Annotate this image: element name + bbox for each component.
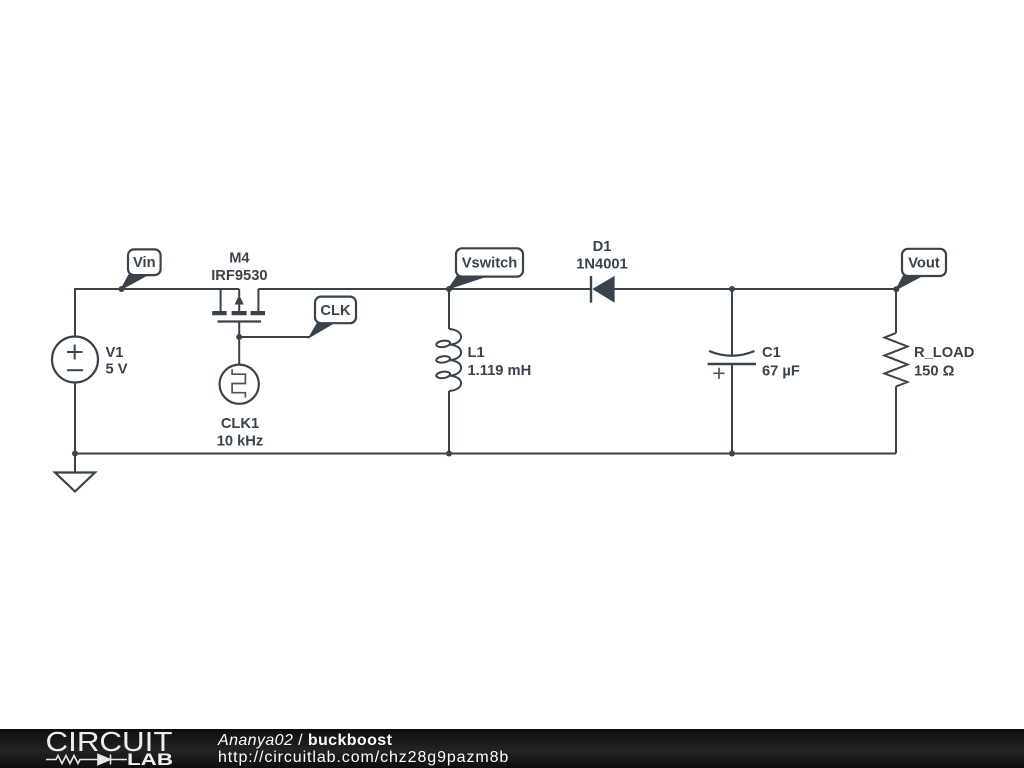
- svg-text:Vswitch: Vswitch: [462, 256, 518, 272]
- svg-text:1N4001: 1N4001: [576, 257, 627, 273]
- value label R_LOAD / 150 Ω: [914, 345, 974, 380]
- node L1 bottom (junction dot): [446, 451, 452, 457]
- diode D1: [591, 276, 614, 303]
- wire: Vout node down to R_LOAD: [895, 289, 897, 333]
- wire: Vin net (V1 top to MOSFET source): [75, 289, 239, 337]
- value label M4 / IRF9530: [211, 251, 267, 285]
- wire: diode anode to Vout corner: [614, 288, 896, 290]
- value label L1 / 1.119 mH: [468, 345, 532, 379]
- svg-text:67 µF: 67 µF: [762, 364, 800, 380]
- node ground junction (junction dot): [72, 451, 78, 457]
- wire: drain net to diode cathode: [258, 288, 591, 290]
- wire: L1 bottom to ground rail: [448, 391, 450, 454]
- wire: Vswitch node down to L1: [448, 289, 450, 329]
- svg-text:M4: M4: [229, 251, 250, 267]
- value label D1 / 1N4001: [576, 239, 627, 273]
- svg-text:1.119 mH: 1.119 mH: [468, 363, 532, 379]
- value label C1 / 67 µF: [762, 345, 800, 380]
- wire: C1 top stub: [731, 289, 733, 355]
- resistor R_LOAD: [885, 333, 908, 387]
- CircuitLab logo: [0, 729, 200, 768]
- svg-text:150 Ω: 150 Ω: [914, 364, 955, 380]
- node Vswitch (junction dot): [446, 286, 452, 292]
- node Vout (junction dot): [893, 286, 899, 292]
- svg-text:10 kHz: 10 kHz: [217, 434, 264, 450]
- clock source CLK1: [220, 365, 259, 404]
- svg-text:CLK1: CLK1: [221, 416, 259, 432]
- flag Vout: [896, 249, 946, 289]
- svg-text:C1: C1: [762, 345, 781, 361]
- transistor M4 (PMOS): [212, 289, 265, 322]
- svg-text:LAB: LAB: [127, 751, 173, 768]
- node C1 top (junction dot): [729, 286, 735, 292]
- voltage source V1: [52, 337, 98, 383]
- svg-text:IRF9530: IRF9530: [211, 268, 267, 284]
- wire: gate junction down to CLK1 source: [238, 337, 240, 365]
- wire: gate stub down to junction: [238, 323, 240, 338]
- svg-text:V1: V1: [106, 345, 124, 361]
- node Vin (junction dot): [119, 286, 125, 292]
- wire: gate junction to CLK flag: [239, 336, 309, 338]
- svg-text:R_LOAD: R_LOAD: [914, 345, 974, 361]
- inductor L1: [436, 329, 461, 391]
- svg-text:L1: L1: [468, 345, 485, 361]
- wire: C1 bottom to ground rail: [731, 365, 733, 454]
- value label CLK1 / 10 kHz: [217, 416, 264, 450]
- svg-text:Vout: Vout: [908, 256, 940, 272]
- value label V1 / 5 V: [106, 345, 128, 378]
- flag Vswitch: [449, 248, 523, 288]
- ground: [55, 454, 95, 492]
- node gate junction (junction dot): [236, 334, 242, 340]
- wire: bottom ground rail: [75, 453, 896, 455]
- wire: R_LOAD bottom to ground rail: [895, 387, 897, 454]
- svg-text:D1: D1: [593, 239, 612, 255]
- flag CLK: [310, 297, 357, 337]
- capacitor C1: [708, 351, 756, 379]
- wire: V1 bottom to ground rail: [74, 383, 76, 454]
- svg-text:CLK: CLK: [320, 303, 351, 319]
- flag Vin: [122, 249, 161, 289]
- svg-text:Vin: Vin: [133, 255, 156, 271]
- node C1 bottom (junction dot): [729, 451, 735, 457]
- svg-text:5 V: 5 V: [106, 362, 128, 378]
